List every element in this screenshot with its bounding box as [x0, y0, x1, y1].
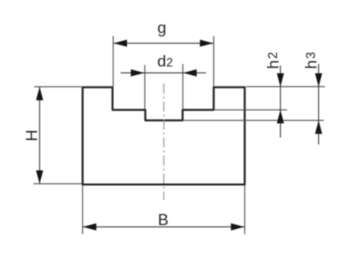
svg-text:g: g: [157, 20, 166, 37]
svg-text:B: B: [158, 212, 169, 229]
dimension line h3: [318, 64, 320, 145]
arrow d2 left: [131, 69, 144, 76]
extension line B right: [244, 185, 246, 234]
centerline: [163, 84, 165, 201]
arrow d2 right: [183, 69, 196, 76]
extension line H bottom: [33, 183, 81, 185]
svg-text:h2: h2: [265, 52, 282, 69]
dimension line g: [113, 42, 214, 44]
extension line groove bottom right: [184, 119, 324, 121]
dimension line h2: [279, 66, 281, 138]
dimension line B: [83, 226, 244, 228]
extension line g left: [112, 36, 114, 87]
extension line H top: [34, 86, 82, 88]
extension line d2 left: [144, 65, 146, 109]
arrow H top: [36, 87, 43, 100]
arrow g right: [200, 40, 213, 47]
svg-text:d2: d2: [157, 54, 173, 71]
arrow h2 bottom: [277, 110, 284, 123]
arrow h2 top: [277, 73, 284, 86]
extension line ledge right: [215, 109, 287, 111]
arrow H bottom: [36, 170, 43, 183]
profile outline of T-slot block: [83, 87, 245, 184]
arrow B right: [231, 223, 244, 230]
extension line g right: [213, 36, 215, 87]
extension line d2 right: [182, 64, 184, 109]
extension line B left: [82, 185, 84, 234]
svg-text:H: H: [24, 130, 41, 142]
dimension line d2: [121, 72, 206, 74]
arrow B left: [83, 223, 96, 230]
arrow h3 top: [315, 73, 322, 86]
arrow h3 bottom: [315, 121, 322, 134]
svg-text:h3: h3: [303, 52, 320, 69]
dimension line H: [39, 87, 41, 184]
arrow g left: [114, 40, 127, 47]
extension line top face right: [246, 86, 325, 88]
